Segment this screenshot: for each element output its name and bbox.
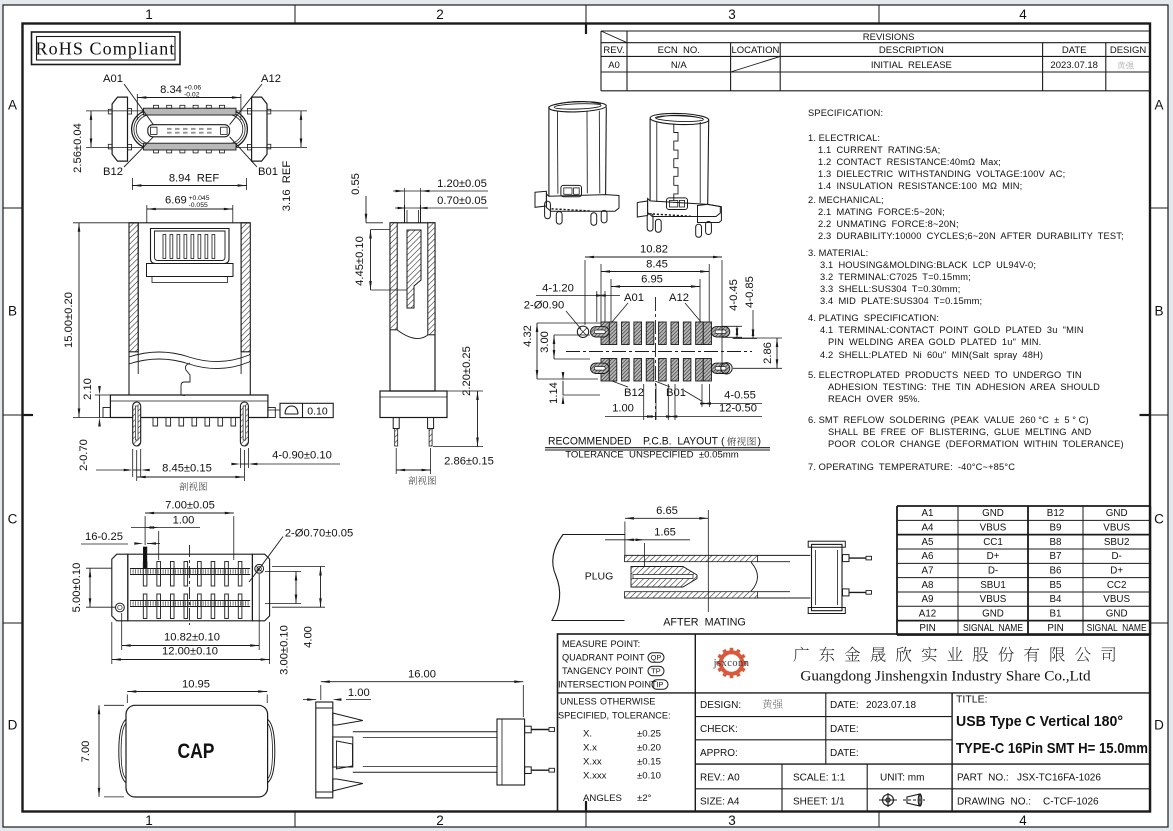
svg-text:1.00: 1.00	[348, 687, 370, 699]
svg-text:C: C	[1154, 512, 1164, 527]
svg-text:8.94 REF: 8.94 REF	[169, 173, 220, 185]
svg-text:CAP: CAP	[178, 739, 215, 763]
svg-text:3: 3	[728, 7, 736, 22]
svg-text:GND: GND	[1106, 508, 1128, 519]
svg-text:B1: B1	[1050, 609, 1062, 620]
svg-text:A01: A01	[103, 73, 123, 85]
svg-text:B: B	[1154, 304, 1163, 319]
svg-text:3: 3	[728, 813, 736, 828]
svg-text:B8: B8	[1050, 537, 1063, 548]
svg-text:3.16 REF: 3.16 REF	[281, 161, 293, 212]
svg-text:A6: A6	[922, 551, 935, 562]
svg-text:8.34: 8.34	[160, 84, 182, 96]
svg-text:2.1 MATING FORCE:5~20N;: 2.1 MATING FORCE:5~20N;	[818, 207, 945, 217]
svg-text:4.32: 4.32	[522, 325, 534, 347]
svg-text:jsxconn: jsxconn	[713, 658, 750, 669]
svg-text:X.: X.	[583, 729, 592, 740]
svg-text:CC1: CC1	[983, 537, 1003, 548]
svg-text:±0.15: ±0.15	[637, 757, 661, 768]
svg-text:RoHS Compliant: RoHS Compliant	[36, 39, 176, 59]
svg-text:2.56±0.04: 2.56±0.04	[72, 123, 84, 173]
svg-text:8.45: 8.45	[646, 259, 668, 271]
svg-text:10.95: 10.95	[182, 679, 210, 691]
svg-text:TANGENCY POINT: TANGENCY POINT	[562, 666, 644, 676]
svg-text:4.00: 4.00	[303, 626, 315, 648]
svg-text:SHEET: 1/1: SHEET: 1/1	[793, 797, 845, 808]
svg-text:±2°: ±2°	[637, 793, 652, 804]
svg-text:CC2: CC2	[1107, 580, 1127, 591]
svg-text:DESIGN: DESIGN	[1110, 45, 1147, 56]
svg-text:16.00: 16.00	[408, 669, 436, 681]
svg-text:TYPE-C 16Pin SMT H= 15.0mm: TYPE-C 16Pin SMT H= 15.0mm	[956, 740, 1148, 757]
svg-text:6.69: 6.69	[165, 195, 187, 207]
svg-text:VBUS: VBUS	[1103, 594, 1130, 605]
svg-text:PIN WELDING AREA GOLD PLAT: PIN WELDING AREA GOLD PLATED 1u" MIN.	[828, 337, 1041, 347]
svg-text:1.4 INSULATION RESISTANCE:10: 1.4 INSULATION RESISTANCE:100 MΩ MIN;	[818, 181, 1022, 191]
svg-text:12-0.50: 12-0.50	[719, 403, 757, 415]
svg-text:1.00: 1.00	[612, 403, 634, 415]
svg-text:B9: B9	[1050, 523, 1062, 534]
svg-text:±0.10: ±0.10	[637, 771, 661, 782]
svg-text:4: 4	[1019, 813, 1027, 828]
svg-text:4-0.85: 4-0.85	[744, 276, 756, 308]
svg-text:VBUS: VBUS	[980, 523, 1007, 534]
svg-text:2: 2	[436, 813, 444, 828]
svg-text:B01: B01	[666, 387, 686, 399]
svg-text:6. SMT REFLOW SOLDERING (PE: 6. SMT REFLOW SOLDERING (PEAK VALUE 260 …	[808, 415, 1089, 425]
svg-text:3.00±0.10: 3.00±0.10	[279, 625, 291, 675]
svg-text:DATE: DATE	[1062, 45, 1087, 56]
svg-text:TP: TP	[651, 667, 661, 676]
svg-text:16-0.25: 16-0.25	[85, 531, 123, 543]
svg-text:A12: A12	[919, 609, 936, 620]
svg-text:GND: GND	[982, 508, 1004, 519]
svg-text:CHECK:: CHECK:	[700, 724, 738, 735]
svg-text:SCALE: 1:1: SCALE: 1:1	[793, 773, 846, 784]
svg-text:±0.25: ±0.25	[637, 729, 661, 740]
svg-text:UNLESS OTHERWISE: UNLESS OTHERWISE	[560, 697, 655, 707]
svg-text:5.00±0.10: 5.00±0.10	[71, 563, 83, 613]
svg-text:3.00: 3.00	[539, 331, 551, 353]
svg-text:A: A	[1154, 98, 1163, 113]
svg-text:4-0.55: 4-0.55	[724, 390, 756, 402]
svg-text:3.3 SHELL:SUS304 T=0.30mm;: 3.3 SHELL:SUS304 T=0.30mm;	[820, 284, 960, 294]
svg-text:B: B	[8, 304, 17, 319]
svg-text:SBU2: SBU2	[1104, 537, 1130, 548]
svg-text:Guangdong Jinshengxin Industry: Guangdong Jinshengxin Industry Share Co.…	[800, 668, 1091, 685]
svg-text:2-Ø0.90: 2-Ø0.90	[524, 300, 564, 312]
svg-text:10.82±0.10: 10.82±0.10	[164, 632, 220, 644]
svg-text:B6: B6	[1050, 566, 1063, 577]
svg-text:C: C	[8, 512, 18, 527]
svg-text:GND: GND	[1106, 609, 1128, 620]
svg-text:10.82: 10.82	[640, 244, 668, 256]
svg-text:2.2 UNMATING FORCE:8~20N;: 2.2 UNMATING FORCE:8~20N;	[818, 219, 959, 229]
svg-text:±0.20: ±0.20	[637, 743, 661, 754]
svg-text:2-Ø0.70±0.05: 2-Ø0.70±0.05	[285, 528, 353, 540]
svg-text:C-TCF-1026: C-TCF-1026	[1043, 797, 1099, 808]
svg-text:-0.055: -0.055	[189, 202, 208, 209]
svg-text:A5: A5	[922, 537, 935, 548]
svg-text:DESIGN:: DESIGN:	[700, 700, 741, 711]
svg-text:B01: B01	[258, 166, 278, 178]
svg-text:1: 1	[145, 813, 153, 828]
svg-text:SHALL BE FREE OF BLISTERIN: SHALL BE FREE OF BLISTERING, GLUE MELTIN…	[828, 427, 1091, 437]
svg-text:B4: B4	[1050, 594, 1063, 605]
svg-text:REVISIONS: REVISIONS	[863, 32, 915, 43]
svg-text:A8: A8	[922, 580, 935, 591]
svg-text:2023.07.18: 2023.07.18	[866, 700, 916, 711]
svg-text:2: 2	[436, 7, 444, 22]
svg-text:D-: D-	[988, 566, 998, 577]
svg-text:B7: B7	[1050, 551, 1062, 562]
svg-text:): )	[758, 436, 762, 448]
svg-text:D+: D+	[987, 551, 1000, 562]
svg-text:4: 4	[1019, 7, 1027, 22]
svg-text:PART NO.:: PART NO.:	[957, 773, 1009, 784]
svg-text:SBU1: SBU1	[980, 580, 1006, 591]
svg-text:0.70±0.05: 0.70±0.05	[437, 195, 487, 207]
svg-text:12.00±0.10: 12.00±0.10	[162, 646, 218, 658]
svg-text:4.1 TERMINAL:CONTACT POINT: 4.1 TERMINAL:CONTACT POINT GOLD PLATED 3…	[820, 325, 1084, 335]
svg-text:15.00±0.20: 15.00±0.20	[63, 292, 75, 348]
svg-text:DESCRIPTION: DESCRIPTION	[879, 45, 944, 56]
svg-text:SPECIFICATION:: SPECIFICATION:	[808, 108, 883, 118]
svg-text:3.1 HOUSING&MOLDING:BLACK LC: 3.1 HOUSING&MOLDING:BLACK LCP UL94V-0;	[820, 260, 1036, 270]
svg-text:D: D	[1154, 718, 1164, 733]
svg-text:DATE:: DATE:	[830, 748, 859, 759]
svg-text:3.2 TERMINAL:C7025 T=0.15mm;: 3.2 TERMINAL:C7025 T=0.15mm;	[820, 272, 971, 282]
svg-text:REV.: REV.	[603, 45, 624, 56]
svg-text:2-0.70: 2-0.70	[78, 439, 90, 471]
svg-text:A: A	[8, 98, 17, 113]
svg-text:6.95: 6.95	[641, 274, 663, 286]
svg-text:DATE:: DATE:	[830, 724, 859, 735]
svg-text:7.00: 7.00	[80, 741, 92, 763]
svg-text:8.45±0.15: 8.45±0.15	[162, 463, 212, 475]
svg-text:0.10: 0.10	[307, 405, 328, 417]
svg-text:A12: A12	[669, 292, 689, 304]
svg-text:A01: A01	[624, 292, 644, 304]
svg-text:ECN NO.: ECN NO.	[658, 45, 700, 56]
svg-text:4-0.90±0.10: 4-0.90±0.10	[272, 450, 332, 462]
svg-text:4.2 SHELL:PLATED Ni 60u" M: 4.2 SHELL:PLATED Ni 60u" MIN(Salt spray …	[820, 350, 1043, 360]
svg-text:GND: GND	[982, 609, 1004, 620]
svg-text:1: 1	[145, 7, 153, 22]
svg-text:VBUS: VBUS	[980, 594, 1007, 605]
svg-text:1.2 CONTACT RESISTANCE:40mΩ: 1.2 CONTACT RESISTANCE:40mΩ Max;	[818, 157, 1001, 167]
svg-text:X.xx: X.xx	[583, 757, 602, 768]
svg-text:1.14: 1.14	[548, 382, 560, 404]
svg-text:1.3 DIELECTRIC WITHSTANDING: 1.3 DIELECTRIC WITHSTANDING VOLTAGE:100V…	[818, 169, 1065, 179]
svg-text:2.86±0.15: 2.86±0.15	[444, 456, 494, 468]
svg-text:D-: D-	[1111, 551, 1121, 562]
svg-text:IP: IP	[657, 680, 664, 689]
svg-text:B12: B12	[103, 166, 123, 178]
svg-text:+0.045: +0.045	[189, 195, 210, 202]
svg-text:B5: B5	[1050, 580, 1063, 591]
svg-text:0.55: 0.55	[350, 173, 362, 195]
svg-text:1.1 CURRENT RATING:5A;: 1.1 CURRENT RATING:5A;	[818, 145, 940, 155]
svg-text:DRAWING NO.:: DRAWING NO.:	[957, 797, 1031, 808]
svg-text:2.3 DURABILITY:10000 CYCLES;: 2.3 DURABILITY:10000 CYCLES;6~20N AFTER …	[818, 231, 1124, 241]
svg-text:+0.06: +0.06	[184, 85, 201, 92]
svg-text:7.00±0.05: 7.00±0.05	[165, 500, 215, 512]
svg-text:3. MATERIAL:: 3. MATERIAL:	[808, 248, 868, 258]
svg-text:D: D	[8, 718, 18, 733]
svg-text:QUADRANT POINT: QUADRANT POINT	[562, 653, 645, 663]
svg-text:DATE:: DATE:	[830, 700, 859, 711]
svg-text:4-1.20: 4-1.20	[542, 283, 574, 295]
svg-text:ADHESION TESTING: THE TIN: ADHESION TESTING: THE TIN ADHESION AREA …	[828, 382, 1100, 392]
svg-text:APPRO:: APPRO:	[700, 748, 738, 759]
svg-text:B12: B12	[1047, 508, 1064, 519]
svg-text:B12: B12	[624, 387, 644, 399]
svg-text:2.86: 2.86	[762, 342, 774, 364]
svg-text:4-0.45: 4-0.45	[728, 279, 740, 311]
svg-text:2023.07.18: 2023.07.18	[1050, 60, 1098, 71]
svg-text:TOLERANCE UNSPECIFIED ±0.05m: TOLERANCE UNSPECIFIED ±0.05mm	[565, 449, 739, 460]
svg-text:REV.: A0: REV.: A0	[700, 773, 740, 784]
svg-text:2. MECHANICAL;: 2. MECHANICAL;	[808, 195, 884, 205]
svg-text:A0: A0	[608, 60, 620, 71]
svg-text:A7: A7	[922, 566, 934, 577]
svg-text:POOR COLOR CHANGE (DEFORMAT: POOR COLOR CHANGE (DEFORMATION WITHIN TO…	[828, 439, 1124, 449]
svg-text:A9: A9	[922, 594, 934, 605]
svg-text:RECOMMENDED P.C.B. LAYOUT: RECOMMENDED P.C.B. LAYOUT	[548, 436, 718, 448]
svg-text:SIZE: A4: SIZE: A4	[700, 797, 740, 808]
svg-text:UNIT: mm: UNIT: mm	[880, 773, 924, 784]
svg-text:4. PLATING SPECIFICATION:: 4. PLATING SPECIFICATION:	[808, 313, 939, 323]
svg-text:X.x: X.x	[583, 743, 597, 754]
svg-text:N/A: N/A	[671, 60, 688, 71]
svg-text:1.20±0.05: 1.20±0.05	[437, 178, 487, 190]
svg-text:1.65: 1.65	[654, 527, 676, 539]
svg-text:REACH OVER 95%.: REACH OVER 95%.	[828, 394, 920, 404]
svg-text:TITLE:: TITLE:	[956, 694, 988, 706]
svg-text:INITIAL RELEASE: INITIAL RELEASE	[871, 60, 952, 71]
svg-text:2.10: 2.10	[82, 378, 94, 400]
svg-text:6.65: 6.65	[656, 505, 678, 517]
svg-text:1. ELECTRICAL:: 1. ELECTRICAL:	[808, 133, 880, 143]
svg-text:PIN: PIN	[1047, 623, 1063, 634]
svg-text:ANGLES: ANGLES	[583, 793, 622, 804]
svg-text:VBUS: VBUS	[1103, 523, 1130, 534]
svg-text:SPECIFIED, TOLERANCE:: SPECIFIED, TOLERANCE:	[558, 711, 671, 721]
svg-text:AFTER MATING: AFTER MATING	[663, 617, 746, 629]
svg-text:JSX-TC16FA-1026: JSX-TC16FA-1026	[1017, 773, 1101, 784]
svg-text:1.00: 1.00	[173, 515, 195, 527]
svg-text:(: (	[721, 436, 725, 448]
svg-text:4.45±0.10: 4.45±0.10	[354, 236, 366, 286]
svg-text:QP: QP	[651, 653, 662, 662]
svg-text:PIN: PIN	[919, 623, 935, 634]
svg-text:LOCATION: LOCATION	[731, 45, 779, 56]
svg-text:MEASURE POINT:: MEASURE POINT:	[562, 639, 640, 649]
svg-text:SIGNAL NAME: SIGNAL NAME	[1087, 623, 1147, 634]
svg-text:2.20±0.25: 2.20±0.25	[461, 346, 473, 396]
svg-text:7. OPERATING TEMPERATURE: -4: 7. OPERATING TEMPERATURE: -40°C~+85°C	[808, 462, 1015, 472]
svg-text:D+: D+	[1110, 566, 1123, 577]
svg-text:X.xxx: X.xxx	[583, 771, 607, 782]
svg-text:USB Type C Vertical 180°: USB Type C Vertical 180°	[956, 713, 1123, 730]
svg-text:3.4 MID PLATE:SUS304 T=0.15: 3.4 MID PLATE:SUS304 T=0.15mm;	[820, 296, 982, 306]
svg-text:PLUG: PLUG	[585, 571, 614, 583]
svg-text:SIGNAL NAME: SIGNAL NAME	[963, 623, 1023, 634]
svg-text:A4: A4	[922, 523, 935, 534]
svg-text:INTERSECTION POINT: INTERSECTION POINT	[558, 680, 657, 690]
svg-text:A1: A1	[922, 508, 934, 519]
svg-text:5. ELECTROPLATED PRODUCTS NE: 5. ELECTROPLATED PRODUCTS NEED TO UNDERG…	[808, 370, 1082, 380]
svg-text:A12: A12	[261, 73, 281, 85]
